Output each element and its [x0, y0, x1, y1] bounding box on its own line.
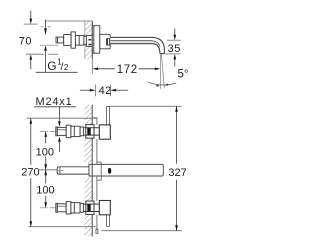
svg-text:327: 327 [168, 167, 186, 179]
5 degree outlet angle [148, 54, 176, 89]
dimension 35 (outlet drop) [165, 29, 181, 67]
spout base body [100, 34, 110, 49]
svg-text:70: 70 [19, 35, 32, 47]
dimension 100 lower [44, 170, 47, 208]
top valve escutcheon box [99, 125, 110, 139]
wall face extension line below wall [91, 59, 93, 74]
dimension 327 [101, 106, 182, 230]
wall mounting face line (bottom view) [91, 105, 93, 237]
concealed body rear plate line [92, 118, 101, 234]
svg-text:100: 100 [36, 185, 54, 197]
spout inlet insert [106, 39, 109, 46]
svg-text:270: 270 [21, 167, 39, 179]
dimension 172 (horizontal) [93, 68, 161, 71]
top valve assembly [40, 125, 100, 138]
escutcheon top extension line [45, 20, 92, 22]
bottom valve escutcheon box [99, 201, 110, 215]
spout bar (front view) [57, 164, 163, 176]
wall section top view (hatched) [85, 21, 92, 59]
spout tube with bend [110, 37, 164, 53]
wall section bottom view (hatched patches) [84, 105, 92, 237]
dimension 70 (vertical, top view left) [24, 11, 59, 69]
svg-text:172: 172 [117, 64, 138, 76]
flange ring [71, 32, 75, 48]
svg-text:35: 35 [168, 43, 181, 55]
unlabeled depth dimension at x=45.5 [40, 20, 58, 73]
bottom valve assembly [40, 201, 100, 215]
aerator mark [108, 168, 111, 174]
svg-text:2: 2 [64, 63, 69, 72]
svg-text:M24x1: M24x1 [36, 96, 73, 108]
svg-text:100: 100 [36, 146, 54, 158]
wall escutcheon (top view) [92, 26, 100, 54]
union nut [64, 35, 71, 46]
dimension 270 [27, 118, 97, 227]
neck piece [84, 36, 88, 44]
svg-text:42: 42 [99, 85, 112, 97]
G1/2 threaded tailpiece stub [56, 37, 64, 43]
dimension 100 upper [39, 131, 58, 169]
dimension 42 [80, 85, 128, 97]
svg-text:G: G [47, 59, 56, 73]
G 1/2 label [36, 58, 78, 73]
M24x1 label [34, 96, 76, 152]
trim plate front bar [107, 106, 110, 226]
svg-text:5°: 5° [178, 68, 189, 80]
connection cylinder [75, 35, 84, 45]
in-wall block [86, 36, 92, 47]
